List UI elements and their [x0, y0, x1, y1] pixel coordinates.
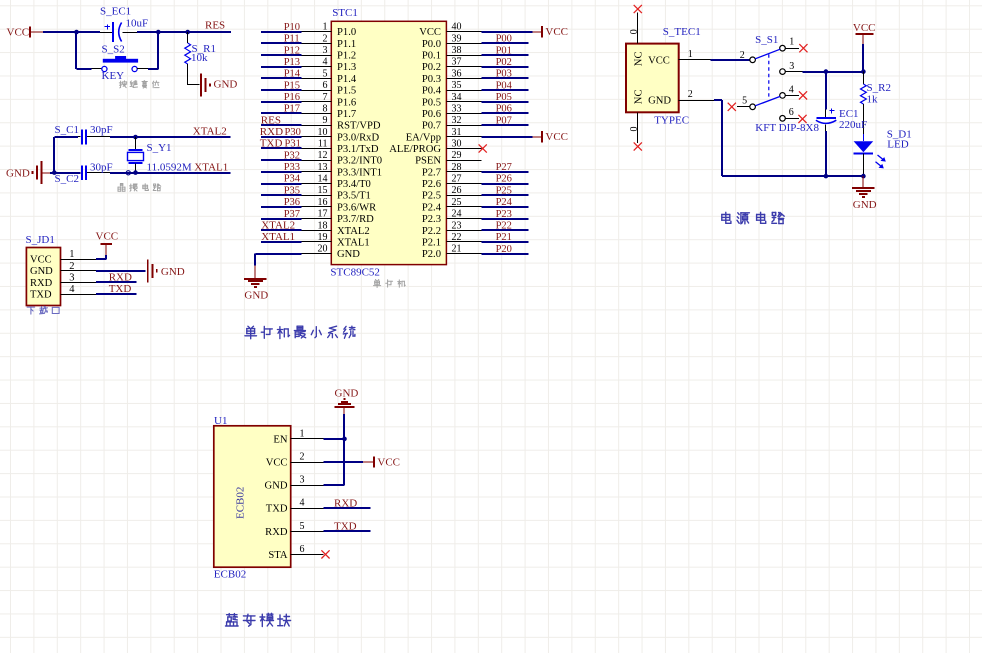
net label TXD (download)	[109, 283, 132, 295]
svg-text:TXD: TXD	[260, 138, 283, 150]
svg-text:GND: GND	[244, 289, 268, 301]
net label RES (MCU)	[261, 114, 281, 126]
no-ERC mark TYPEC bottom	[634, 142, 642, 150]
svg-text:P07: P07	[496, 115, 512, 126]
MCU pin 16	[302, 197, 332, 208]
svg-text:1: 1	[789, 36, 794, 47]
net label P12	[284, 45, 300, 56]
svg-text:P3.3/INT1: P3.3/INT1	[337, 167, 382, 178]
svg-text:P12: P12	[284, 45, 300, 56]
wire MCU right row 15	[481, 194, 528, 196]
wire JD pin2 to ground	[96, 270, 146, 272]
svg-text:KEY: KEY	[102, 70, 125, 82]
svg-text:STC89C52: STC89C52	[330, 267, 380, 279]
svg-text:P36: P36	[284, 197, 300, 208]
wire MCU left row 14	[261, 183, 302, 185]
wire XTAL1 net	[110, 172, 231, 174]
svg-text:220uF: 220uF	[839, 119, 867, 131]
power port VCC (download)	[96, 231, 119, 255]
svg-text:8: 8	[323, 104, 328, 115]
svg-text:P2.4: P2.4	[422, 202, 442, 213]
svg-text:RXD: RXD	[334, 497, 357, 509]
svg-text:RST/VPD: RST/VPD	[337, 121, 381, 132]
wire JD pin3 RXD	[96, 281, 137, 283]
svg-text:2: 2	[300, 452, 305, 463]
net label P17	[284, 104, 300, 115]
LED S_D1	[854, 128, 912, 176]
MCU pin 19	[302, 232, 332, 243]
svg-text:TXD: TXD	[30, 289, 52, 300]
svg-text:1: 1	[300, 428, 305, 439]
MCU pin 9	[302, 115, 332, 126]
svg-text:XTAL2: XTAL2	[337, 226, 370, 237]
comment 单片机	[374, 280, 406, 288]
wire MCU left row 17	[261, 218, 302, 220]
svg-text:VCC: VCC	[545, 131, 568, 143]
power port VCC (bluetooth)	[363, 456, 400, 468]
svg-text:26: 26	[452, 185, 462, 196]
svg-text:2: 2	[69, 261, 74, 272]
power port VCC (reset rail)	[7, 27, 44, 39]
svg-text:VCC: VCC	[648, 55, 670, 66]
svg-text:EA/Vpp: EA/Vpp	[406, 132, 441, 143]
wire MCU right row 2	[481, 42, 528, 44]
svg-text:1k: 1k	[867, 94, 879, 106]
net label P00	[496, 34, 512, 45]
net label TXD (bluetooth)	[334, 520, 357, 532]
svg-text:P27: P27	[496, 162, 512, 173]
svg-text:XTAL1: XTAL1	[261, 231, 295, 243]
wire MCU right row 8	[481, 112, 528, 114]
svg-text:4: 4	[323, 57, 328, 68]
svg-text:P2.0: P2.0	[422, 249, 441, 260]
svg-text:P14: P14	[284, 69, 301, 80]
svg-text:P16: P16	[284, 92, 300, 103]
net label P07	[496, 115, 512, 126]
wire MCU right row 13	[481, 171, 528, 173]
svg-text:P1.0: P1.0	[337, 27, 356, 38]
no-ERC mark TYPEC top	[634, 5, 642, 13]
svg-text:RES: RES	[205, 20, 225, 32]
MCU pin 35	[446, 80, 481, 91]
svg-text:31: 31	[452, 127, 462, 138]
ground GND (download)	[148, 259, 185, 282]
svg-text:P3.7/RD: P3.7/RD	[337, 214, 374, 225]
svg-text:2: 2	[323, 33, 328, 44]
svg-text:S_EC1: S_EC1	[100, 6, 131, 18]
net label P37	[284, 209, 300, 220]
svg-text:ECB02: ECB02	[235, 487, 247, 519]
svg-text:4: 4	[300, 498, 305, 509]
svg-text:15: 15	[318, 185, 328, 196]
ground GND (reset)	[201, 74, 237, 97]
MCU pin 39	[446, 33, 481, 44]
svg-text:0: 0	[629, 29, 640, 34]
svg-text:36: 36	[452, 68, 462, 79]
MCU pin 26	[446, 185, 481, 196]
svg-text:25: 25	[452, 197, 462, 208]
wire MCU left row 7	[261, 101, 302, 103]
svg-text:40: 40	[452, 22, 462, 33]
svg-text:P06: P06	[496, 104, 512, 115]
svg-text:XTAL1: XTAL1	[194, 161, 228, 173]
junction F (crystal bottom)	[133, 170, 138, 175]
svg-text:P0.2: P0.2	[422, 62, 441, 73]
svg-text:GND: GND	[648, 95, 671, 106]
ground GND (crystal)	[6, 161, 50, 184]
MCU pin 15	[302, 185, 332, 196]
svg-text:RXD: RXD	[265, 527, 288, 538]
net label P24	[496, 197, 513, 208]
svg-text:P3.4/T0: P3.4/T0	[337, 179, 371, 190]
svg-text:P2.5: P2.5	[422, 191, 441, 202]
svg-text:P00: P00	[496, 34, 512, 45]
svg-text:ALE/PROG: ALE/PROG	[389, 144, 441, 155]
svg-text:P35: P35	[284, 185, 300, 196]
net label P14	[284, 69, 301, 80]
wire pin2 VCC	[323, 461, 363, 463]
svg-text:33: 33	[452, 104, 462, 115]
MCU pin 18	[302, 220, 332, 231]
wire MCU left row 4	[261, 66, 302, 68]
junction I (EC1 bottom)	[824, 174, 829, 179]
svg-text:P1.6: P1.6	[337, 97, 356, 108]
MCU pin 13	[302, 162, 332, 173]
svg-text:P1.5: P1.5	[337, 86, 356, 97]
resistor S_R2 1k	[861, 72, 891, 134]
wire MCU right row 16	[481, 206, 528, 208]
MCU pin 5	[302, 68, 332, 79]
svg-text:NC: NC	[634, 89, 645, 104]
MCU pin 8	[302, 104, 332, 115]
junction A (VCC/key)	[74, 30, 79, 35]
svg-text:P2.7: P2.7	[422, 167, 441, 178]
net label TXD P31	[260, 138, 301, 150]
net label P13	[284, 57, 300, 68]
MCU pin 31	[446, 127, 481, 138]
svg-text:P03: P03	[496, 69, 512, 80]
junction D	[52, 170, 57, 175]
net label RXD (download)	[109, 272, 132, 284]
svg-text:P11: P11	[284, 34, 300, 45]
svg-text:GND: GND	[30, 266, 53, 277]
capacitor S_C1 30pF	[55, 124, 113, 144]
wire MCU left row 6	[261, 89, 302, 91]
comment 下载口	[27, 306, 59, 314]
wire pin 40 to VCC	[481, 31, 532, 33]
svg-text:XTAL1: XTAL1	[337, 237, 370, 248]
svg-text:38: 38	[452, 45, 462, 56]
net label P01	[496, 45, 512, 56]
wire pin5 RXD	[323, 530, 370, 532]
wire TYPEC pin2 down and across	[714, 100, 863, 176]
svg-text:34: 34	[452, 92, 462, 103]
svg-text:RXD: RXD	[260, 126, 283, 138]
wire MCU right row 14	[481, 183, 528, 185]
wire MCU right row 4	[481, 66, 528, 68]
svg-text:TXD: TXD	[109, 283, 132, 295]
wire MCU left row 1	[261, 31, 302, 33]
comment 按键复位	[119, 81, 159, 89]
wire pin1 EN	[323, 438, 344, 440]
svg-text:GND: GND	[335, 387, 359, 399]
ground GND (bluetooth)	[335, 387, 359, 414]
MCU pin 11	[302, 139, 332, 150]
svg-text:TXD: TXD	[334, 520, 357, 532]
svg-text:GND: GND	[337, 249, 360, 260]
pin-end circle (crystal)	[126, 171, 130, 175]
svg-text:P01: P01	[496, 45, 512, 56]
net label P25	[496, 185, 512, 196]
svg-text:3: 3	[69, 272, 74, 283]
ground GND (MCU)	[244, 265, 268, 301]
svg-text:6: 6	[789, 107, 794, 118]
svg-text:12: 12	[318, 150, 328, 161]
svg-text:S_S2: S_S2	[102, 43, 125, 55]
MCU pin 14	[302, 174, 332, 185]
MCU pin 6	[302, 80, 332, 91]
svg-text:P0.3: P0.3	[422, 74, 441, 85]
wire JD pin4 TXD	[96, 293, 137, 295]
MCU pin 32	[446, 115, 481, 126]
MCU pin 2	[302, 33, 332, 44]
svg-text:7: 7	[323, 92, 328, 103]
MCU pin 36	[446, 68, 481, 79]
net label RXD (bluetooth)	[334, 497, 357, 509]
wire MCU right row 20	[481, 253, 528, 255]
MCU pin 12	[302, 150, 332, 161]
junction K (EN)	[342, 437, 347, 442]
svg-text:TXD: TXD	[266, 504, 288, 515]
svg-text:P26: P26	[496, 174, 512, 185]
switch S_S1 KFT DIP-8X8	[737, 34, 820, 134]
svg-text:6: 6	[300, 544, 305, 555]
net label P06	[496, 104, 512, 115]
svg-text:P15: P15	[284, 80, 300, 91]
svg-text:P3.5/T1: P3.5/T1	[337, 191, 371, 202]
wire key right branch	[148, 32, 158, 69]
svg-text:13: 13	[318, 162, 328, 173]
connector S_JD1	[26, 234, 96, 305]
net label RXD P30	[260, 126, 301, 138]
MCU pin 1	[302, 22, 332, 33]
svg-text:P1.1: P1.1	[337, 39, 356, 50]
svg-text:30pF: 30pF	[90, 124, 113, 136]
svg-text:VCC: VCC	[7, 27, 30, 39]
resistor S_R1 10k	[185, 32, 216, 85]
svg-text:P33: P33	[284, 162, 300, 173]
net label P32	[284, 150, 300, 161]
net label XTAL1	[194, 161, 228, 173]
svg-text:P3.6/WR: P3.6/WR	[337, 202, 377, 213]
wire JD pin1 to VCC	[96, 255, 107, 259]
svg-text:2: 2	[740, 50, 745, 61]
wire MCU left row 11	[261, 147, 302, 149]
capacitor S_EC1 10uF	[100, 6, 148, 42]
junction C (resistor top)	[185, 30, 190, 35]
svg-text:0: 0	[629, 127, 640, 132]
net label XTAL2 (MCU)	[261, 220, 295, 232]
wire XTAL2 net	[110, 136, 231, 138]
MCU U? designator STC1	[332, 7, 358, 19]
wire MCU right row 18	[481, 229, 528, 231]
junction J (LED bottom)	[861, 174, 866, 179]
svg-text:P0.4: P0.4	[422, 86, 442, 97]
net label XTAL1 (MCU)	[261, 231, 295, 243]
svg-text:5: 5	[300, 521, 305, 532]
svg-text:28: 28	[452, 162, 462, 173]
MCU pin 33	[446, 104, 481, 115]
svg-text:S_R2: S_R2	[867, 82, 891, 94]
MCU pin 10	[302, 127, 332, 138]
MCU pin 25	[446, 197, 481, 208]
svg-text:S_JD1: S_JD1	[26, 234, 55, 246]
svg-text:VCC: VCC	[419, 27, 441, 38]
crystal S_Y1 11.0592M	[128, 137, 192, 174]
junction B	[156, 30, 161, 35]
svg-text:GND: GND	[853, 199, 877, 211]
svg-text:P20: P20	[496, 244, 512, 255]
svg-text:21: 21	[452, 244, 462, 255]
svg-text:P1.4: P1.4	[337, 74, 357, 85]
no-ERC mark pin 30	[479, 144, 487, 152]
title 蓝牙模块	[226, 613, 291, 626]
svg-text:3: 3	[323, 45, 328, 56]
svg-text:EN: EN	[273, 434, 287, 445]
wire VCC to junction	[43, 31, 100, 33]
MCU pin 28	[446, 162, 481, 173]
svg-text:STA: STA	[268, 550, 288, 561]
svg-text:3: 3	[300, 475, 305, 486]
MCU pin 37	[446, 57, 481, 68]
svg-text:1: 1	[688, 49, 693, 60]
net label P35	[284, 185, 300, 196]
svg-text:P34: P34	[284, 174, 301, 185]
wire MCU left row 9	[261, 124, 302, 126]
svg-text:11: 11	[318, 139, 328, 150]
capacitor S_C2 30pF	[54, 161, 112, 185]
svg-text:VCC: VCC	[30, 255, 52, 266]
net label P36	[284, 197, 300, 208]
svg-text:32: 32	[452, 115, 462, 126]
svg-text:22: 22	[452, 232, 462, 243]
svg-text:P13: P13	[284, 57, 300, 68]
svg-text:P3.0/RxD: P3.0/RxD	[337, 132, 379, 143]
svg-text:S_Y1: S_Y1	[147, 142, 172, 154]
svg-text:P02: P02	[496, 57, 512, 68]
net label P05	[496, 92, 512, 103]
svg-text:P05: P05	[496, 92, 512, 103]
MCU pin 17	[302, 209, 332, 220]
svg-text:S_TEC1: S_TEC1	[663, 26, 701, 38]
svg-text:KFT DIP-8X8: KFT DIP-8X8	[755, 122, 819, 134]
svg-text:10k: 10k	[191, 52, 208, 64]
svg-text:5: 5	[742, 96, 747, 107]
MCU pin 27	[446, 174, 481, 185]
power port VCC (pin 31)	[533, 131, 568, 143]
svg-text:P3.1/TxD: P3.1/TxD	[337, 144, 379, 155]
svg-text:4: 4	[789, 84, 794, 95]
wire MCU left row 19	[261, 241, 302, 243]
wire MCU left row 8	[261, 112, 302, 114]
wire cap to junction B	[137, 31, 158, 33]
net label P23	[496, 209, 512, 220]
svg-text:P2.2: P2.2	[422, 226, 441, 237]
svg-text:35: 35	[452, 80, 462, 91]
svg-text:9: 9	[323, 115, 328, 126]
svg-text:P25: P25	[496, 185, 512, 196]
wire MCU left row 15	[261, 194, 302, 196]
svg-text:P30: P30	[285, 127, 301, 138]
net label P34	[284, 174, 301, 185]
junction E (crystal top)	[133, 135, 138, 140]
svg-text:S_C2: S_C2	[55, 173, 79, 185]
svg-text:23: 23	[452, 220, 462, 231]
svg-text:10uF: 10uF	[126, 18, 149, 30]
MCU pin 40	[446, 22, 481, 33]
wire MCU right row 17	[481, 218, 528, 220]
svg-text:VCC: VCC	[853, 22, 876, 34]
svg-text:27: 27	[452, 174, 462, 185]
svg-text:RXD: RXD	[109, 272, 132, 284]
net label P33	[284, 162, 300, 173]
wire MCU right row 7	[481, 101, 528, 103]
wire MCU left row 12	[261, 159, 302, 161]
svg-text:P24: P24	[496, 197, 513, 208]
no-ERC mark STA	[321, 550, 329, 558]
MCU pin 4	[302, 57, 332, 68]
svg-text:GND: GND	[6, 167, 30, 179]
svg-text:20: 20	[318, 244, 328, 255]
svg-text:P1.2: P1.2	[337, 51, 356, 62]
svg-text:P2.3: P2.3	[422, 214, 441, 225]
svg-text:P17: P17	[284, 104, 300, 115]
svg-text:RES: RES	[261, 114, 281, 126]
svg-text:P0.0: P0.0	[422, 39, 441, 50]
MCU pin 30	[446, 139, 481, 150]
MCU pin 20	[302, 244, 332, 255]
svg-text:1: 1	[69, 249, 74, 260]
net label P27	[496, 162, 512, 173]
svg-text:P23: P23	[496, 209, 512, 220]
no-ERC mark switch pin5	[728, 103, 736, 111]
svg-text:2: 2	[688, 89, 693, 100]
svg-text:VCC: VCC	[96, 231, 119, 243]
svg-text:P0.5: P0.5	[422, 97, 441, 108]
wire cap branch vertical	[54, 137, 78, 173]
connector S_TEC1 TYPEC	[626, 13, 714, 144]
svg-text:11.0592M: 11.0592M	[147, 162, 192, 174]
svg-text:VCC: VCC	[377, 457, 400, 469]
wire MCU right row 9	[481, 124, 528, 126]
module U1 ECB02	[214, 415, 324, 567]
svg-text:P2.1: P2.1	[422, 237, 441, 248]
svg-text:P3.2/INT0: P3.2/INT0	[337, 156, 382, 167]
svg-text:6: 6	[323, 80, 328, 91]
svg-text:37: 37	[452, 57, 462, 68]
svg-text:29: 29	[452, 150, 462, 161]
svg-text:5: 5	[323, 68, 328, 79]
power port VCC (power circuit)	[853, 22, 876, 44]
wire MCU left row 13	[261, 171, 302, 173]
net label P16	[284, 92, 300, 103]
svg-text:LED: LED	[887, 138, 908, 150]
svg-text:24: 24	[452, 209, 462, 220]
svg-text:1: 1	[323, 22, 328, 33]
svg-text:P21: P21	[496, 232, 512, 243]
wire MCU left row 5	[261, 77, 302, 79]
MCU pin 3	[302, 45, 332, 56]
